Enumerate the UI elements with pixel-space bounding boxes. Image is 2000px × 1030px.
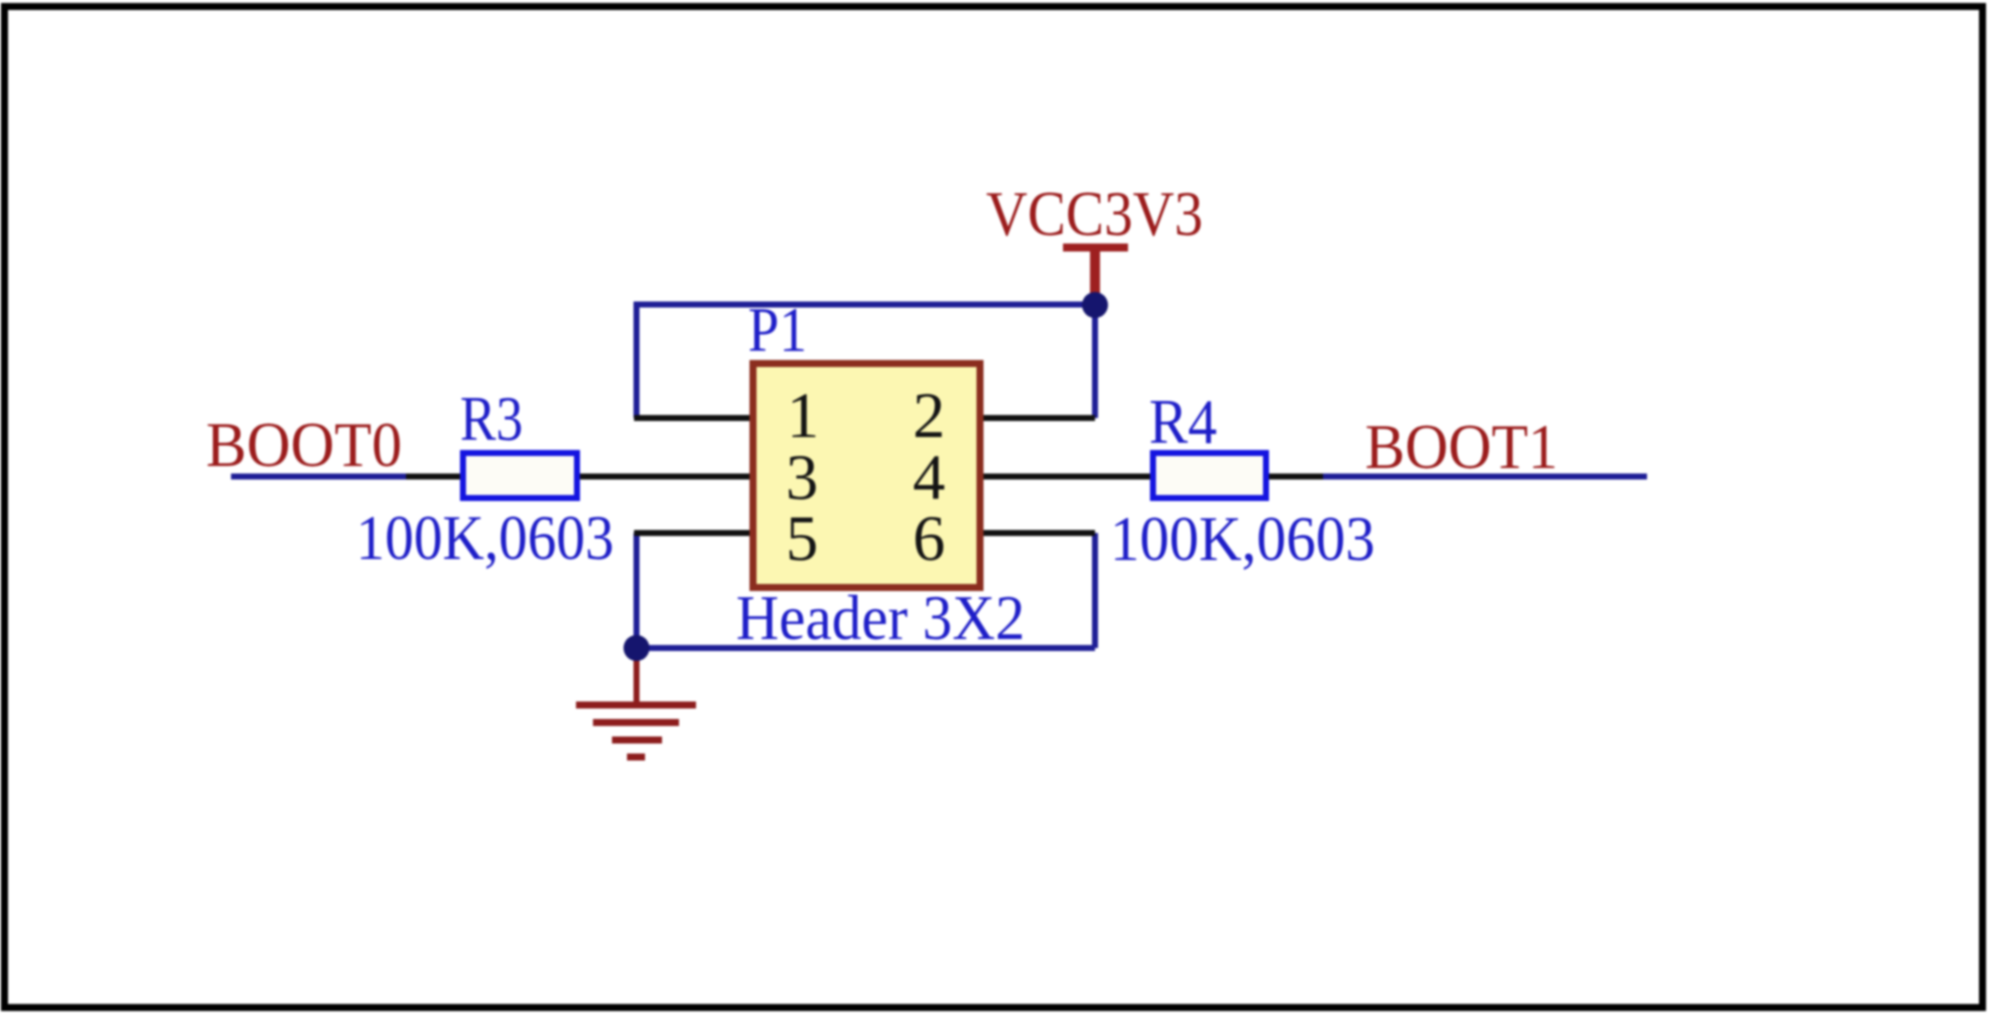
ground bar 4 [627,754,645,761]
svg-text:P1: P1 [748,295,807,365]
pin 2 stub [977,415,1095,421]
wire: left vertical from pin 5 down to ground rail [634,533,640,648]
svg-text:100K,0603: 100K,0603 [1110,504,1375,574]
pin 4 stub [977,474,1153,480]
ground stem [634,648,640,705]
ground bar 1 [576,702,696,709]
pin 5 stub [634,530,756,536]
svg-text:R3: R3 [460,384,523,454]
resistor R4 right lead [1266,474,1323,480]
ground bar 3 [612,737,662,744]
resistor R4 body [1153,453,1266,498]
wire: BOOT1 net [1320,474,1647,480]
svg-text:R4: R4 [1149,387,1217,457]
svg-text:100K,0603: 100K,0603 [356,503,614,573]
svg-text:VCC3V3: VCC3V3 [986,179,1203,249]
svg-text:5: 5 [786,503,819,575]
junction dot at ground rail [624,635,650,661]
wire: right vertical from pin 6 down to ground rail [1092,533,1098,648]
wire: top horizontal net from P1 pin area to VCC junction [634,302,1096,308]
header P1 body [753,364,980,588]
pin 3 stub [579,474,756,480]
power symbol VCC3V3 stem [1090,248,1100,306]
junction dot at VCC [1082,292,1108,318]
resistor R3 left lead [406,474,463,480]
svg-text:BOOT0: BOOT0 [206,410,402,480]
power symbol VCC3V3 bar [1063,244,1128,252]
svg-text:6: 6 [913,503,946,575]
svg-text:BOOT1: BOOT1 [1365,412,1558,482]
resistor R3 body [463,453,577,498]
ground bar 2 [593,719,679,726]
pin 6 stub [977,530,1095,536]
wire: BOOT0 net [231,474,412,480]
svg-text:Header 3X2: Header 3X2 [736,583,1025,653]
wire: right vertical from VCC junction down to pin 2 [1092,305,1098,419]
wire: left vertical down to pin 1 [634,302,640,419]
pin 1 stub [634,415,756,421]
wire: bottom horizontal ground rail [637,645,1096,651]
